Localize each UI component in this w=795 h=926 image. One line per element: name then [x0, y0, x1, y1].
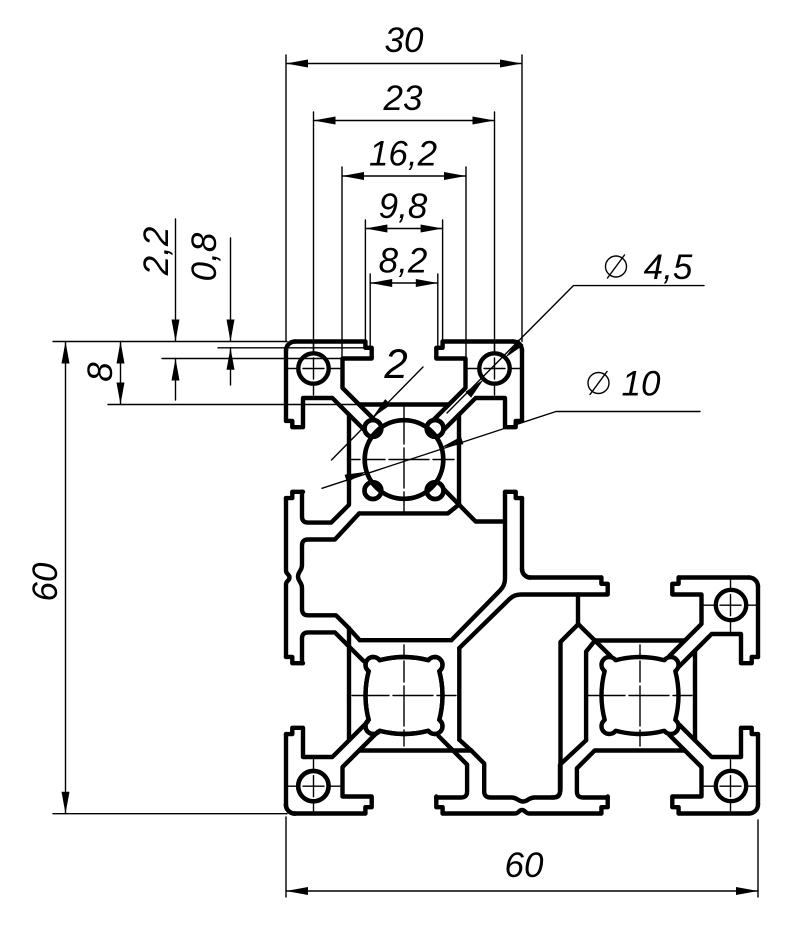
- svg-text:4,5: 4,5: [644, 248, 693, 287]
- svg-text:16,2: 16,2: [369, 135, 437, 174]
- svg-text:60: 60: [505, 846, 544, 885]
- svg-text:0,8: 0,8: [185, 232, 224, 281]
- svg-text:30: 30: [385, 21, 424, 60]
- svg-text:8: 8: [81, 362, 120, 382]
- svg-text:2: 2: [383, 340, 407, 387]
- svg-text:2,2: 2,2: [137, 227, 176, 277]
- svg-text:8,2: 8,2: [379, 242, 428, 281]
- svg-text:60: 60: [26, 562, 65, 601]
- svg-text:23: 23: [383, 79, 423, 118]
- svg-text:9,8: 9,8: [379, 187, 428, 226]
- svg-text:10: 10: [622, 365, 661, 404]
